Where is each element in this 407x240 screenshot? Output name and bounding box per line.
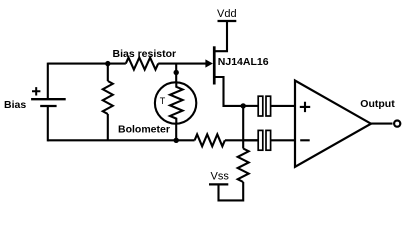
- battery V1 (Bias source): [31, 63, 66, 142]
- resistor R3 (horizontal on bottom rail): [195, 134, 225, 146]
- op-amp U1: [295, 81, 371, 167]
- svg-text:Output: Output: [360, 98, 395, 110]
- bolometer RT1 (circle with T and resistor): [155, 82, 196, 123]
- node D junction dot source / caps: [241, 103, 246, 108]
- svg-text:NJ14AL16: NJ14AL16: [218, 56, 269, 68]
- power Vss terminal: [209, 170, 229, 184]
- resistor R1 (left shunt): [103, 64, 113, 141]
- label Output: [360, 98, 395, 110]
- wire op-amp output: [371, 123, 393, 125]
- wire top rail from battery to gate: [48, 63, 207, 65]
- wire bolometer to bottom rail: [175, 124, 177, 141]
- svg-text:Vdd: Vdd: [217, 8, 237, 20]
- node A junction dot top rail / R1: [105, 61, 110, 66]
- label Bias: [4, 99, 26, 111]
- svg-text:Bias: Bias: [4, 99, 26, 111]
- node C junction dot bolometer / bottom rail: [174, 138, 179, 143]
- node B junction dot on bolometer branch: [174, 70, 179, 75]
- capacitor C1 (top, to + input): [243, 96, 295, 116]
- transistor Q1 NJ14AL16 (JFET): [205, 21, 243, 106]
- wire vertical from node D through bottom rail: [242, 106, 244, 149]
- svg-text:T: T: [160, 96, 166, 106]
- resistor R4 (vertical to Vss): [219, 149, 249, 201]
- label NJ14AL16: [218, 56, 269, 68]
- svg-text:Vss: Vss: [211, 170, 230, 182]
- svg-text:Bolometer: Bolometer: [118, 123, 170, 135]
- wire bolometer branch: [175, 64, 177, 83]
- resistor R2 Bias resistor (horizontal): [126, 58, 158, 70]
- label Bolometer: [118, 123, 170, 135]
- wire bottom rail: [48, 139, 259, 141]
- power Vdd terminal: [217, 8, 237, 21]
- label Bias resistor: [113, 48, 177, 60]
- output terminal circle: [394, 121, 400, 127]
- svg-text:Bias resistor: Bias resistor: [113, 48, 177, 60]
- capacitor C2 (bottom, to - input): [243, 130, 295, 150]
